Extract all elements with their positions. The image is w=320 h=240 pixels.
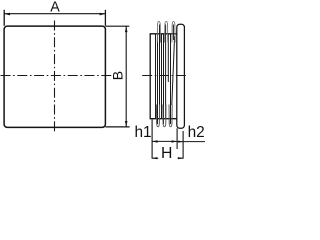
h2 arrow [178,141,183,143]
dimension B arrow top [125,27,128,33]
front view panel outline [4,26,105,127]
h1 extension line left [151,120,153,159]
svg-text:h1: h1 [134,124,151,141]
H dimension line left stub [152,157,159,159]
pleat wall lines [156,25,175,125]
svg-text:h2: h2 [188,124,205,141]
svg-text:H: H [161,145,172,162]
dimension A arrow left [4,13,10,16]
vertical centerline [54,21,56,133]
dimension A extension line left [3,10,5,26]
top pleat loops [157,21,175,42]
dimension B line [125,26,127,127]
svg-text:B: B [110,71,126,80]
side view media frame [150,34,177,119]
dimension B extension line top [105,25,129,27]
side view horizontal centerline [142,75,187,77]
horizontal centerline [1,75,112,77]
H arrow left [152,157,157,159]
h1 h2 boundary extension line [176,128,178,149]
h1 arrow left [152,140,157,142]
dimension A arrow right [100,13,106,16]
dimension A extension line right [104,10,106,26]
bottom pleat loops [156,105,172,127]
h1 dimension line [152,140,177,142]
H dimension line right stub [178,157,184,159]
svg-text:A: A [50,0,60,16]
side view header frame [177,24,185,128]
h2 dimension leader line [177,141,205,143]
H arrow right [178,157,183,159]
dimension B arrow bottom [125,121,128,127]
h1 arrow right [172,140,177,142]
h2 extension line right [182,131,184,158]
dimension B extension line bottom [105,126,129,128]
dimension A line [4,13,105,15]
